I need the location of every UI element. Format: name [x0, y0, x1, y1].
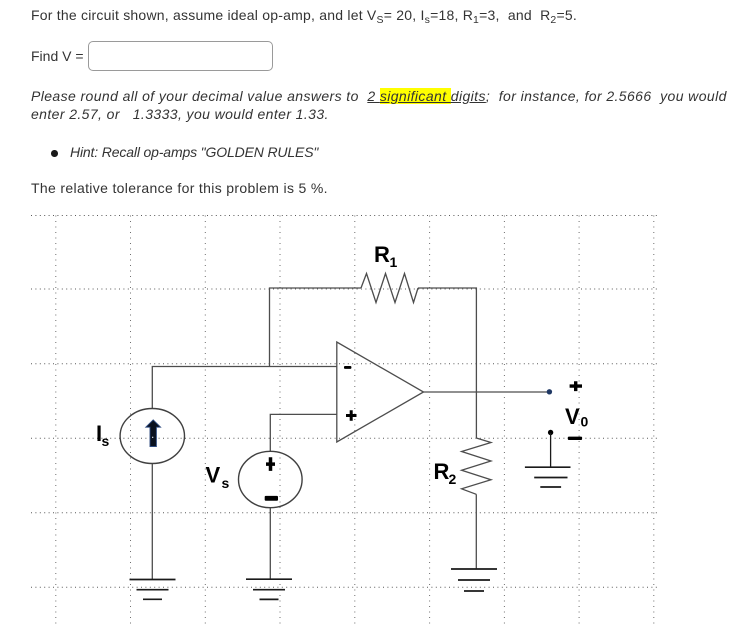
wire: Is to ground — [151, 464, 153, 580]
wire: Vs to ground — [269, 508, 271, 579]
ground (R2) — [451, 569, 497, 591]
label - (output) — [568, 437, 582, 440]
ground (V0 reference) — [525, 467, 571, 487]
label + (output) — [570, 381, 582, 391]
node: output dot — [547, 389, 552, 394]
Vs plus symbol — [266, 457, 275, 471]
rounding instructions — [31, 88, 727, 123]
answer input box — [88, 41, 273, 71]
Is arrow — [146, 420, 161, 447]
ground (Vs) — [246, 579, 292, 599]
ground (Is) — [130, 580, 176, 600]
op-amp minus symbol — [344, 366, 351, 369]
svg-text:0: 0 — [581, 414, 589, 430]
resistor R2 — [462, 438, 491, 494]
Find V label — [31, 48, 84, 65]
node: V0 minus terminal dot — [548, 430, 553, 435]
svg-text:R: R — [434, 459, 450, 484]
label R2 — [434, 459, 457, 487]
label R1 — [374, 242, 398, 270]
hint bullet — [51, 150, 58, 157]
svg-text:R: R — [374, 242, 390, 267]
svg-text:s: s — [222, 475, 230, 491]
svg-text:1: 1 — [390, 254, 398, 270]
tolerance line — [31, 180, 328, 197]
wire: R2 to ground — [475, 494, 477, 569]
problem statement line 1 — [31, 7, 577, 24]
wire: inverting input from Is node — [152, 367, 336, 409]
wire: output — [424, 391, 550, 393]
hint text — [70, 144, 318, 161]
svg-text:V: V — [206, 463, 221, 488]
current source Is — [120, 409, 184, 464]
op-amp U1 — [337, 342, 424, 442]
Vs minus symbol — [265, 496, 278, 501]
svg-text:2: 2 — [449, 471, 457, 487]
resistor R1 — [361, 274, 418, 303]
wire: feedback riser — [270, 288, 362, 367]
wire: R1 to output column — [418, 288, 476, 438]
wire: non-inverting input from Vs — [270, 414, 337, 451]
label V0 — [565, 404, 589, 430]
wire: reference to ground — [550, 433, 552, 467]
op-amp plus symbol — [346, 410, 357, 421]
svg-text:V: V — [565, 404, 580, 429]
svg-text:s: s — [102, 433, 110, 449]
label Vs — [206, 463, 230, 492]
label Is — [96, 421, 110, 449]
voltage source Vs — [238, 451, 302, 507]
